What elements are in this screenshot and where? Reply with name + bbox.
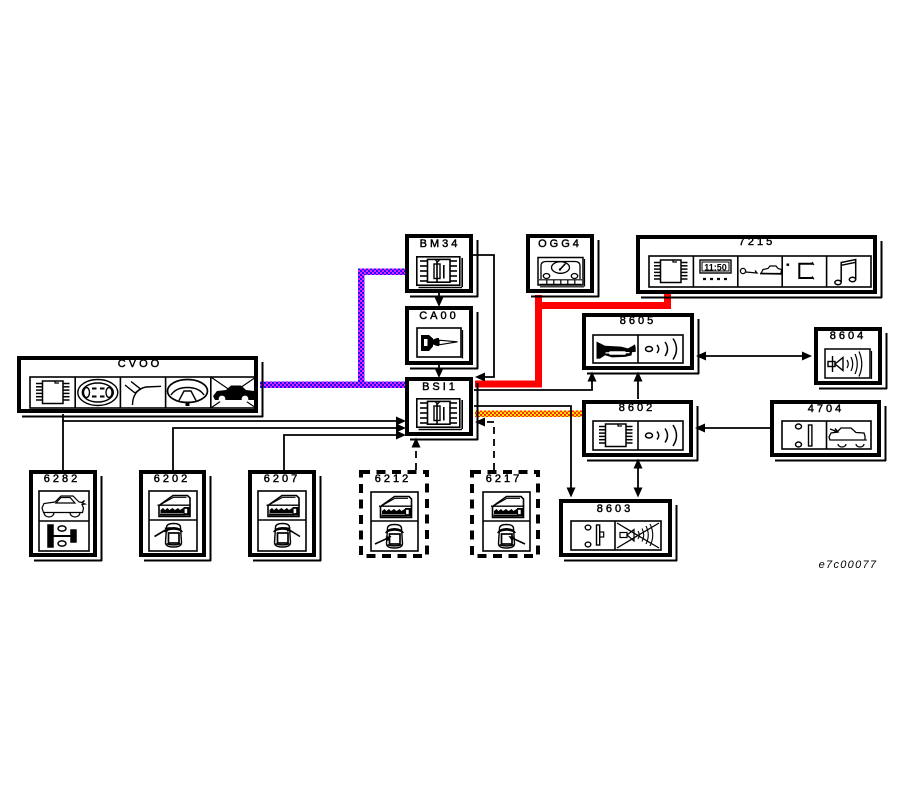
block OGG4 instrument cluster	[528, 236, 599, 297]
wire 6207 to BSI1 left	[284, 435, 398, 470]
svg-text:6217: 6217	[486, 473, 522, 485]
horn icon	[597, 342, 636, 359]
svg-text:11:50: 11:50	[704, 263, 727, 273]
wire purple lower horizontal segment CV00 to BSI1	[260, 382, 405, 389]
wire 4704 to 8602	[704, 427, 770, 429]
block CA00 ignition key	[407, 308, 478, 369]
block 7215 radio/display unit	[638, 236, 882, 298]
CV00 cell2 interior lamp icon	[78, 380, 118, 406]
car with open bonnet icon	[829, 428, 867, 447]
svg-text:e7c00077: e7c00077	[819, 559, 878, 571]
wire red OGG4 vertical segment	[535, 295, 542, 387]
block 8603 siren	[561, 501, 677, 561]
wire BSI1 right to 8605 bottom	[474, 381, 592, 390]
block 6282 ignition/lock switch	[31, 472, 102, 561]
switch contacts icon	[585, 525, 604, 547]
CV00 cell3 column stalk icon	[125, 382, 161, 406]
svg-text:6207: 6207	[264, 473, 300, 485]
wire CV00 bottom to 6282 top vertical	[62, 414, 64, 470]
svg-text:6202: 6202	[154, 473, 190, 485]
sound waves icon	[646, 339, 677, 360]
car side view icon	[42, 496, 85, 517]
svg-text:CA00: CA00	[419, 310, 459, 322]
svg-text:8604: 8604	[830, 330, 866, 342]
front door icon	[267, 496, 300, 517]
wire BM34 to CA00	[438, 293, 440, 303]
rear door icon	[379, 497, 412, 518]
7215 cell4 display bracket icon	[787, 262, 815, 279]
wire red horizontal branch to 7215	[535, 302, 671, 309]
svg-text:6282: 6282	[44, 473, 80, 485]
block BM34 engine fusebox	[407, 236, 478, 297]
arrow right into 8604 left	[802, 352, 812, 361]
wire CA00 to BSI1	[438, 365, 440, 374]
wire purple BM34-to-CV00/BSI1 harness horizontal upper segment	[358, 269, 405, 276]
car top view with arrow rear-left icon	[375, 525, 404, 549]
block 8602 siren control	[584, 402, 698, 461]
wire dashed 6212 to BSI1 bottom	[415, 446, 417, 470]
car top view with arrow rear-right icon	[498, 525, 526, 549]
block 6217 rear right door lock (optional, dashed)	[472, 472, 538, 556]
wire BSI1 right to 8603 top	[474, 406, 571, 488]
wire BM34 right to BSI1 right with elbow	[473, 255, 494, 377]
block 8604 loudspeaker	[816, 329, 887, 389]
arrow left into 8602 right	[695, 424, 705, 433]
arrow up into 8605 bottom left	[588, 372, 597, 382]
arrow into BSI1 left line2	[396, 424, 406, 433]
wire 6282/CV00 junction to BSI1 left	[63, 420, 398, 422]
car top view with arrow front-left icon	[155, 524, 183, 548]
block BSI1 body control unit	[407, 379, 478, 440]
wire red vertical into 7215	[664, 294, 671, 309]
front door icon	[158, 496, 191, 517]
switch contacts icon	[796, 424, 812, 447]
svg-text:8603: 8603	[597, 503, 633, 515]
CV00 cell5 crossed-out car icon	[211, 377, 256, 408]
ECU chip icon	[599, 424, 633, 447]
wire 8602 top to 8605 bottom	[637, 381, 639, 399]
svg-text:4704: 4704	[808, 403, 844, 415]
arrow left into 8605 right	[696, 352, 706, 361]
wire 8605 to 8604 double arrow	[704, 355, 804, 357]
arrow up into 8605 bottom right	[634, 372, 643, 382]
block 6212 rear left door lock (optional, dashed)	[361, 472, 427, 556]
svg-text:OGG4: OGG4	[538, 238, 582, 250]
wire orange BSI1 to 8602	[475, 411, 582, 418]
arrow into BSI1 right (from BM34 line)	[475, 373, 485, 382]
block 8605 horn unit	[584, 315, 699, 374]
wire purple vertical segment	[358, 269, 365, 388]
arrow into BSI1 right (6217 line)	[475, 418, 485, 427]
svg-text:8605: 8605	[620, 315, 656, 327]
svg-text:BSI1: BSI1	[422, 381, 458, 393]
arrow into CA00 top	[435, 297, 444, 307]
arrow into BSI1 left line3	[396, 431, 406, 440]
wire red horizontal into BSI1	[475, 381, 542, 388]
block CV00 steering column module	[19, 358, 263, 417]
sound waves icon	[646, 425, 677, 446]
crossed-out speaker icon	[617, 523, 659, 548]
key glyph	[421, 335, 433, 351]
7215 cell5 music notes icon	[835, 260, 856, 285]
arrow into BSI1 left line1	[396, 417, 406, 426]
block 6207 front right door lock	[250, 472, 321, 561]
svg-text:CVOO: CVOO	[118, 358, 162, 370]
wire 8602 bottom to 8603 top double arrow	[637, 467, 639, 489]
svg-text:7215: 7215	[739, 236, 775, 248]
svg-text:BM34: BM34	[420, 238, 461, 250]
7215 cell2 clock icon	[700, 260, 731, 279]
wire dashed 6217 to BSI1 right	[486, 422, 494, 470]
speaker with waves icon	[828, 352, 862, 377]
car top view with arrow front-right icon	[274, 524, 301, 548]
arrow up into 8602 bottom	[634, 459, 643, 469]
CV00 cell4 steering wheel icon	[168, 380, 208, 407]
7215 cell1 ECU chip icon	[654, 260, 688, 283]
lock actuator icon	[48, 525, 76, 547]
CV00 cell1 ECU chip icon	[36, 381, 70, 404]
arrow down into 8603 top left	[567, 488, 576, 498]
rear door icon	[491, 497, 524, 518]
svg-text:6212: 6212	[375, 473, 411, 485]
block 4704 bonnet switch	[772, 402, 886, 461]
arrow down into 8603 top right	[634, 488, 643, 498]
arrow into BSI1 top	[435, 368, 444, 378]
svg-text:8602: 8602	[619, 402, 655, 414]
wire 6202 to BSI1 left	[173, 428, 398, 470]
arrow up into BSI1 bottom	[412, 438, 421, 448]
block 6202 front left door lock	[141, 472, 211, 561]
7215 cell3 key and car icon	[740, 266, 782, 274]
